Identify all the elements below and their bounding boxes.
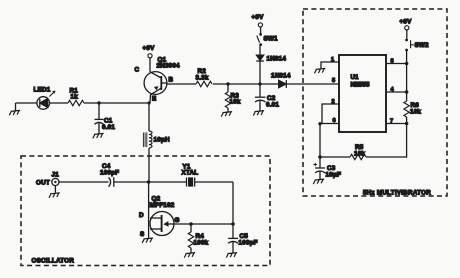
power +9V (SW2) [400,19,413,39]
resistor R4 [188,224,208,253]
svg-text:+9V: +9V [400,19,413,26]
connector J1 [36,172,59,193]
ground [221,112,232,117]
svg-text:D: D [139,212,144,219]
wire [148,103,150,131]
svg-text:S: S [140,231,144,238]
svg-text:10μH: 10μH [154,137,170,144]
node [231,222,235,226]
svg-text:1: 1 [331,57,334,63]
svg-text:SW2: SW2 [415,42,430,49]
svg-text:MPF102: MPF102 [150,202,175,209]
svg-text:2N3904: 2N3904 [157,63,181,70]
svg-text:0.01: 0.01 [266,102,279,109]
ground (left input) [9,103,20,115]
wire [191,223,233,225]
power +9V (Q1 collector) [143,45,156,72]
node (emitter junction) [147,101,150,104]
pin 1 [321,57,339,68]
ground (pin 1) [315,68,326,73]
resistor R5 [350,144,366,160]
svg-text:10k: 10k [230,99,241,106]
svg-text:100pF: 100pF [239,240,258,247]
diode D1 1N914 (vertical) [256,46,286,85]
svg-text:B: B [169,77,174,84]
resistor R2 [196,68,213,87]
wire (right rail) [406,50,408,101]
transistor Q2 MPF102 [139,182,191,238]
svg-text:1k: 1k [71,94,79,101]
wire (base to R2) [167,83,196,85]
svg-text:LED1: LED1 [34,87,51,94]
svg-text:U1: U1 [351,74,359,81]
svg-text:6: 6 [333,118,336,124]
capacitor C1 [95,103,116,134]
node [405,122,409,126]
svg-text:2: 2 [332,99,335,105]
svg-text:3.3k: 3.3k [196,75,209,82]
ground [313,179,324,184]
pin 7 [386,119,407,125]
svg-text:100k: 100k [194,240,209,247]
inductor 10uH [143,131,170,148]
wire (pins 2-6 down to C3) [319,124,321,157]
svg-text:OSCILLATOR: OSCILLATOR [32,258,75,265]
IC U1 NE555 [339,55,386,132]
node (pins 2-6 tie) [318,122,321,125]
ground [253,111,264,116]
ground [93,133,104,138]
node [405,90,409,94]
svg-text:5: 5 [332,78,335,84]
dashed box: oscillator [21,156,270,266]
svg-text:1N914: 1N914 [271,73,291,80]
svg-text:+9V: +9V [252,14,265,21]
svg-text:1N914: 1N914 [267,56,287,63]
svg-text:10μF: 10μF [326,172,342,179]
wire [84,102,149,104]
node [97,101,100,104]
svg-text:J1: J1 [52,172,60,179]
svg-text:0.01: 0.01 [102,124,115,131]
node [258,82,261,85]
svg-text:10k: 10k [354,151,365,158]
switch SW2 [405,39,429,52]
capacitor C5 [228,224,258,253]
svg-text:OUT: OUT [36,180,50,187]
LED LED1 [34,87,56,110]
ground [184,253,195,258]
wire [50,102,69,104]
crystal Y1 [149,164,233,187]
pin 6 [320,118,339,124]
pin 8 [386,59,407,65]
node [318,155,322,159]
svg-text:+9V: +9V [143,45,156,52]
ground (Q2 source) [142,238,153,243]
ground (J1) [49,193,60,198]
svg-text:10k: 10k [410,109,421,116]
pin 2 [322,99,339,124]
wire [366,117,407,157]
node [189,222,193,226]
power +9V (SW1) [252,14,265,27]
svg-text:E: E [152,96,156,103]
switch SW1 [257,27,278,46]
dashed box: 5Hz multivibrator [303,9,447,196]
svg-text:C: C [135,67,140,74]
svg-text:NE555: NE555 [351,82,370,89]
svg-text:SW1: SW1 [264,36,279,43]
svg-text:XTAL: XTAL [182,170,199,177]
svg-text:G: G [175,217,180,224]
wire [320,156,350,158]
diode D2 1N914 (horizontal, to pin 5) [260,73,339,88]
pin 4 [386,87,407,93]
svg-text:7: 7 [390,119,393,125]
svg-text:8: 8 [391,59,394,65]
svg-text:100pF: 100pF [100,170,119,177]
node [405,62,409,66]
label Q2 MPF102 [150,196,175,210]
wire [148,148,150,182]
label Q1 2N3904 [157,57,181,70]
resistor R6 [404,101,422,117]
wire [16,102,38,104]
capacitor C4 [100,163,149,187]
node [147,180,151,184]
resistor R3 [225,84,241,112]
wire [213,83,260,85]
capacitor C2 [255,84,279,111]
wire [232,182,234,224]
ground [226,253,237,258]
wire [59,181,109,183]
resistor R1 [68,88,84,106]
svg-text:5Hz MULTIVIBRATOR: 5Hz MULTIVIBRATOR [363,190,431,197]
transistor Q1 [135,67,174,104]
capacitor C3 [314,157,342,179]
node [226,82,229,85]
